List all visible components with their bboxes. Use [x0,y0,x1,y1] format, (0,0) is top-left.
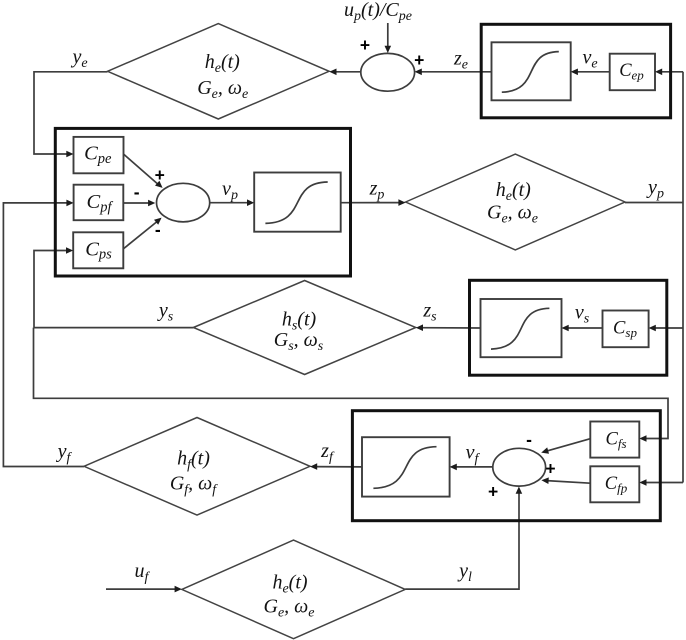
svg-text:he(t): he(t) [496,179,531,204]
svg-text:ys: ys [157,300,174,325]
svg-text:zf: zf [320,440,335,465]
svg-text:vs: vs [575,302,590,327]
svg-text:Ge, ωe: Ge, ωe [487,202,538,227]
svg-text:ve: ve [582,47,597,72]
svg-text:-: - [526,430,532,450]
svg-text:uf: uf [135,560,151,585]
svg-text:zp: zp [369,178,385,203]
svg-text:-: - [155,220,161,240]
svg-text:+: + [360,35,370,55]
svg-text:yl: yl [457,560,472,585]
svg-text:ye: ye [70,46,87,71]
svg-text:+: + [414,50,424,70]
svg-text:-: - [134,182,140,202]
svg-text:he(t): he(t) [205,51,240,76]
svg-text:vp: vp [222,178,238,203]
svg-text:yp: yp [646,177,664,202]
svg-text:Ge, ωe: Ge, ωe [197,77,248,102]
svg-text:Gs, ωs: Gs, ωs [274,329,324,354]
svg-text:he(t): he(t) [272,572,307,597]
svg-text:Ge, ωe: Ge, ωe [263,596,314,621]
svg-text:ze: ze [453,48,468,73]
svg-text:Gf, ωf: Gf, ωf [170,473,218,498]
svg-text:+: + [155,165,165,185]
svg-text:hf(t): hf(t) [177,448,210,473]
svg-text:+: + [488,482,498,502]
svg-text:yf: yf [56,441,73,466]
svg-text:+: + [545,459,555,479]
svg-text:up(t)/Cpe: up(t)/Cpe [344,0,412,24]
svg-text:vf: vf [466,442,481,467]
svg-text:zs: zs [422,300,437,325]
